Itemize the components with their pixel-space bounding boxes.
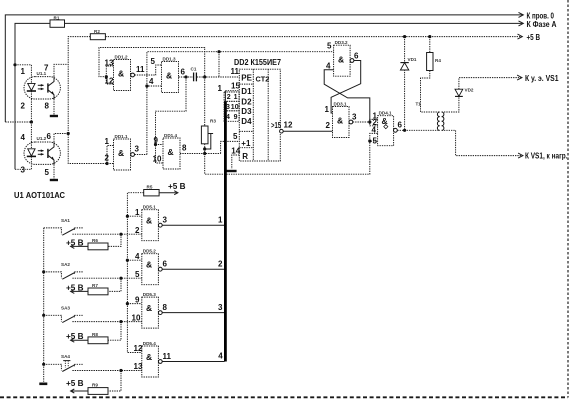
svg-text:1: 1 <box>218 215 223 224</box>
wire rail 2 (K Faze A) <box>15 21 523 169</box>
gate DD5.4 <box>134 341 159 377</box>
svg-text:6: 6 <box>47 132 52 141</box>
svg-text:DD4.1: DD4.1 <box>379 111 392 116</box>
svg-text:C1: C1 <box>191 67 197 72</box>
wire C1 to PE pin 11 <box>197 76 240 78</box>
node junction VD1/+5V rail <box>403 35 406 38</box>
node junction pin9 <box>154 143 157 146</box>
node junction rail2/pin1 <box>13 63 16 66</box>
svg-text:R: R <box>242 152 248 161</box>
pin labels U1.1 <box>21 64 50 111</box>
svg-text:&: & <box>337 116 343 126</box>
svg-text:1: 1 <box>21 67 26 76</box>
svg-text:&: & <box>146 260 152 270</box>
svg-text:3: 3 <box>226 104 230 111</box>
svg-text:12: 12 <box>105 77 114 86</box>
svg-text:+5 В: +5 В <box>66 332 84 341</box>
gate DD5.2 <box>135 249 158 285</box>
resistor R4 <box>421 37 442 112</box>
svg-text:&: & <box>168 147 174 157</box>
resistor R5 pull-up <box>144 182 186 196</box>
svg-text:CT2: CT2 <box>256 74 270 83</box>
svg-text:9: 9 <box>154 136 159 145</box>
switch SA4 (push-button) <box>44 354 142 372</box>
svg-text:К VS1, к нагр.: К VS1, к нагр. <box>525 151 568 160</box>
wire rail2 bottom to U1.2 pin3 <box>15 164 31 169</box>
svg-text:1: 1 <box>135 208 140 217</box>
DD4.1 input brackets <box>368 112 377 146</box>
resistor R8 pull-up <box>66 322 121 344</box>
phototransistor <box>47 83 49 92</box>
svg-text:PE: PE <box>241 73 252 82</box>
svg-text:+5 В: +5 В <box>66 283 84 292</box>
svg-text:+5 В: +5 В <box>66 238 84 247</box>
svg-text:1: 1 <box>325 105 330 114</box>
svg-text:5: 5 <box>151 57 156 66</box>
svg-text:R1: R1 <box>54 16 60 21</box>
svg-text:3: 3 <box>218 303 223 312</box>
gate DD3.2 <box>326 40 350 76</box>
wire DD3.2 pin4 from DD3.1 out3 (cross) <box>324 70 370 122</box>
svg-text:R8: R8 <box>92 332 98 337</box>
svg-text:12: 12 <box>134 344 143 353</box>
DD4.1 output 6 <box>394 121 440 133</box>
svg-text:К Фазе А: К Фазе А <box>527 20 557 29</box>
svg-text:D2: D2 <box>241 97 252 106</box>
switch common bus <box>42 228 45 382</box>
gate DD1.1 <box>114 134 131 170</box>
bus data lines 1-4 <box>218 84 240 362</box>
wire T1 secondary bottom to K VS1 arrow <box>442 130 523 158</box>
wire chain stub pin4 <box>127 259 141 261</box>
svg-text:DD2 К155ИЕ7: DD2 К155ИЕ7 <box>234 58 282 67</box>
wire branch down to PE node <box>218 52 220 77</box>
wire DD1.2 inputs to PE node (line A) <box>99 48 205 77</box>
DD5.1 output 3 / line 1 <box>158 215 224 227</box>
LED <box>28 149 35 156</box>
wire DD3.2 out to DD3.1 pin1 (cross) <box>331 61 361 114</box>
gate DD1.4 <box>153 133 181 169</box>
svg-text:5: 5 <box>233 132 238 141</box>
svg-text:12: 12 <box>284 120 293 129</box>
wire R5 to gates upper-input chain <box>127 193 143 353</box>
DD1.1 output 3 <box>131 145 147 157</box>
DD5.4 output 11 / line 4 <box>158 352 224 364</box>
svg-text:8: 8 <box>45 102 50 111</box>
node junction after C1 <box>203 75 206 78</box>
node junction rail1/U1 <box>30 120 33 123</box>
node junction out6/VD1 <box>403 129 406 132</box>
svg-text:D3: D3 <box>241 107 252 116</box>
svg-text:4: 4 <box>218 352 223 361</box>
svg-text:13: 13 <box>134 362 143 371</box>
DD3.2 output 6 <box>350 52 359 63</box>
svg-text:8: 8 <box>182 144 187 153</box>
gate DD5.1 <box>135 205 158 241</box>
phototransistor <box>47 149 49 158</box>
DD5.2 output 6 / line 2 <box>158 259 224 271</box>
svg-text:&: & <box>146 352 152 362</box>
svg-text:&: & <box>382 116 388 126</box>
svg-text:5: 5 <box>327 42 332 51</box>
DD1.2 output 11 <box>131 65 162 77</box>
switch SA2 <box>44 262 142 280</box>
svg-text:R7: R7 <box>92 283 98 288</box>
wire rail1 branch to optocouplers <box>5 121 31 123</box>
svg-text:SA4: SA4 <box>61 354 70 359</box>
svg-text:4: 4 <box>149 77 154 86</box>
resistor R1 <box>50 16 65 28</box>
svg-text:U1 АОТ101АС: U1 АОТ101АС <box>14 190 65 200</box>
wire DD1.3 pin4 from DD1.1 out3 <box>147 85 162 87</box>
svg-text:R3: R3 <box>210 119 216 124</box>
svg-text:К у. э. VS1: К у. э. VS1 <box>525 74 559 83</box>
svg-text:1: 1 <box>105 137 110 146</box>
svg-text:15: 15 <box>231 82 240 91</box>
page border right <box>567 0 569 398</box>
svg-text:&: & <box>118 148 124 158</box>
svg-text:DD1.1: DD1.1 <box>115 134 128 139</box>
counter DD2 K155IE7 <box>234 58 282 161</box>
wire chain stub pin9 <box>127 303 141 305</box>
switch SA3 <box>44 306 142 324</box>
svg-text:&: & <box>166 71 172 81</box>
svg-text:DD1.4: DD1.4 <box>164 133 177 138</box>
diode VD1 <box>400 37 416 131</box>
svg-text:9: 9 <box>234 114 238 121</box>
svg-text:SA1: SA1 <box>61 218 70 223</box>
svg-text:6: 6 <box>181 68 186 77</box>
counter pin number labels <box>231 67 241 155</box>
svg-text:+5 В: +5 В <box>527 33 541 42</box>
gate DD1.3 <box>149 56 179 92</box>
resistor R6 pull-up <box>66 234 121 250</box>
svg-text:R4: R4 <box>435 58 441 63</box>
DD1.2 input bracket pins 13,12 <box>105 59 114 86</box>
counter R pin to ground <box>226 155 239 171</box>
capacitor C1 <box>191 67 197 82</box>
U1.2 pin leads and ground pin 5 <box>31 122 58 180</box>
svg-text:R6: R6 <box>92 238 98 243</box>
svg-text:4: 4 <box>21 133 26 142</box>
gate DD1.2 <box>114 54 131 90</box>
svg-text:VD2: VD2 <box>465 88 474 93</box>
svg-text:>15: >15 <box>271 121 281 130</box>
svg-text:2: 2 <box>326 121 331 130</box>
svg-text:2: 2 <box>21 102 26 111</box>
page border bottom <box>0 396 568 398</box>
svg-text:R5: R5 <box>147 185 153 190</box>
svg-text:3: 3 <box>21 166 26 175</box>
optocoupler U1.2 <box>24 136 60 164</box>
wire R2 to phototransistor collectors node <box>68 37 113 164</box>
svg-text:9: 9 <box>135 295 140 304</box>
svg-text:14: 14 <box>231 146 240 155</box>
svg-text:1: 1 <box>234 94 238 101</box>
LED <box>28 83 35 90</box>
svg-text:6: 6 <box>163 260 168 269</box>
transformer T1 <box>416 102 444 131</box>
svg-text:U1.2: U1.2 <box>37 136 47 141</box>
svg-text:4: 4 <box>326 62 331 71</box>
resistor R9 pull-up <box>66 371 121 395</box>
svg-text:10: 10 <box>231 104 239 111</box>
gate DD4.1 <box>378 111 394 146</box>
counter output 12 <box>280 120 333 133</box>
svg-text:13: 13 <box>105 59 114 68</box>
svg-text:DD3.1: DD3.1 <box>334 101 347 106</box>
wire rail 1 (K prov. 0) <box>5 12 523 122</box>
svg-text:VD1: VD1 <box>408 57 417 62</box>
svg-text:Т1: Т1 <box>416 102 422 107</box>
node junction out3/DD4.1 inputs <box>368 120 371 123</box>
svg-text:3: 3 <box>352 112 357 121</box>
svg-text:SA3: SA3 <box>61 306 70 311</box>
node junction R3 / out8 <box>203 152 206 155</box>
wire U1.1 pin7 to collector node <box>54 64 68 76</box>
svg-text:R2: R2 <box>94 29 100 34</box>
svg-text:5: 5 <box>135 270 140 279</box>
wire chain stub pin1 <box>127 215 141 217</box>
svg-text:+5 В: +5 В <box>168 182 186 191</box>
bus tap box D2 <box>224 92 239 101</box>
DD3.1 output 3 <box>349 112 370 124</box>
node junction pin4 <box>145 84 148 87</box>
svg-text:+5 В: +5 В <box>66 379 84 388</box>
svg-text:D1: D1 <box>241 87 252 96</box>
wire line B: DD1.1.out3 up and across to DD3.2 pin5 <box>147 52 334 155</box>
svg-text:1: 1 <box>218 84 223 93</box>
svg-text:DD1.2: DD1.2 <box>115 54 128 59</box>
pin labels U1.2 <box>21 132 52 177</box>
svg-text:DD5.2: DD5.2 <box>143 249 156 254</box>
svg-text:4: 4 <box>135 252 140 261</box>
svg-text:3: 3 <box>135 145 140 154</box>
U1.1 pin leads and ground pin 8 <box>31 99 58 122</box>
svg-text:D4: D4 <box>241 117 252 126</box>
svg-text:2: 2 <box>105 154 110 163</box>
svg-text:&: & <box>338 55 344 65</box>
svg-text:2: 2 <box>135 226 140 235</box>
wire U1.2 pin6 to collector node <box>54 134 68 143</box>
svg-text:11: 11 <box>231 67 240 76</box>
svg-text:DD5.1: DD5.1 <box>143 205 156 210</box>
svg-text:6: 6 <box>354 52 359 61</box>
svg-text:2: 2 <box>218 259 223 268</box>
svg-text:8: 8 <box>163 303 168 312</box>
wire rail 3 (+5 V) <box>105 34 522 39</box>
svg-text:DD5.3: DD5.3 <box>143 292 156 297</box>
svg-text:5: 5 <box>45 168 50 177</box>
svg-text:2: 2 <box>227 94 231 101</box>
svg-text:7: 7 <box>44 64 49 73</box>
svg-text:3: 3 <box>163 216 168 225</box>
svg-text:&: & <box>146 303 152 313</box>
svg-text:&: & <box>118 69 124 79</box>
wire out8 node down to DD4.1 pins 4,5 <box>205 141 370 174</box>
DD1.1 input bracket pins 1,2 <box>105 137 114 165</box>
coupling arrows <box>38 84 44 86</box>
bus tap box D4 <box>224 111 239 122</box>
svg-text:DD5.4: DD5.4 <box>143 341 156 346</box>
switch SA1 <box>44 218 142 236</box>
svg-text:4: 4 <box>372 126 377 135</box>
resistor R3 trimmer <box>201 77 216 154</box>
DD5.3 output 8 / line 3 <box>158 303 224 315</box>
resistor R7 pull-up <box>66 278 121 295</box>
svg-text:4: 4 <box>226 114 230 121</box>
node junction R4/+5V rail <box>428 35 431 38</box>
svg-text:SA2: SA2 <box>61 262 70 267</box>
svg-text:&: & <box>146 216 152 226</box>
svg-text:6: 6 <box>398 121 403 130</box>
bus tap box D3 <box>224 101 239 111</box>
svg-text:R9: R9 <box>92 383 98 388</box>
diode VD2 <box>455 88 474 97</box>
optocoupler U1.1 <box>24 71 60 99</box>
wire VD2 to K u.e. VS1 arrow <box>459 75 522 89</box>
wire T1 secondary top to VD2 <box>442 96 459 112</box>
coupling arrows <box>38 150 44 152</box>
trimmer tap <box>205 134 211 150</box>
svg-text:5: 5 <box>373 137 378 146</box>
wire step from out6 node down to DD1.4 inputs <box>156 77 187 163</box>
svg-text:10: 10 <box>153 155 162 164</box>
svg-text:DD3.2: DD3.2 <box>335 40 348 45</box>
gate DD3.1 <box>325 101 350 137</box>
resistor R2 <box>90 29 105 40</box>
svg-text:+1: +1 <box>241 139 251 148</box>
svg-text:11: 11 <box>163 352 172 361</box>
node junction line B to PE <box>217 50 220 53</box>
gate DD5.3 <box>132 292 159 328</box>
wire rail2 to U1.1 pin1 <box>15 65 31 77</box>
node junction pin6 <box>67 132 70 135</box>
DD1.3 output 6 line <box>179 68 194 79</box>
DD1.4 pin9 stub <box>156 144 164 146</box>
svg-text:11: 11 <box>136 65 145 74</box>
ground main <box>39 382 47 385</box>
svg-text:10: 10 <box>132 313 141 322</box>
DD1.4 output 8 line to counter +1 <box>180 141 239 153</box>
svg-text:DD1.3: DD1.3 <box>163 56 176 61</box>
